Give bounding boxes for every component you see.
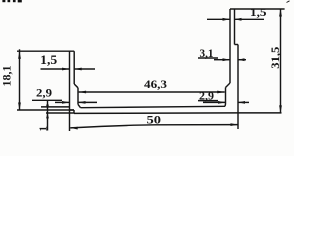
arrow 46,3 right (right-pointing) — [217, 91, 225, 94]
dimension 3,1: text underline — [198, 57, 218, 59]
svg-text:3,1: 3,1 — [200, 46, 214, 60]
arrow 1,5 top - right (left-pointing) — [235, 18, 242, 21]
dimension 3,1: right arrow line — [238, 59, 246, 61]
dimension 1,5 top: right arrow line + text underline — [235, 18, 265, 20]
profile left wall inner jog — [74, 84, 78, 88]
profile right wall outer face upper — [234, 9, 236, 45]
svg-text:31,5: 31,5 — [268, 47, 282, 69]
dimension 50 extension left — [69, 110, 71, 131]
profile right wall outer step jog — [235, 44, 239, 46]
arrow 3,1 right (left-pointing) — [238, 58, 245, 61]
profile right wall inner jog — [226, 83, 231, 88]
arrow 50 right (right-pointing) — [231, 123, 239, 126]
dimension 1,5 left: left arrow line — [41, 68, 70, 70]
profile right wall inner face upper — [229, 9, 231, 83]
arrowheads — [18, 9, 282, 130]
dimension line 46,3 — [79, 91, 225, 93]
base bottom extension to 31,5 dimension — [238, 112, 282, 114]
profile inner floor — [81, 106, 226, 107]
arrow 1,5 left - right (left-pointing) — [74, 68, 82, 71]
arrow 50 left (left-pointing) — [70, 127, 78, 130]
svg-text:46,3: 46,3 — [144, 77, 167, 91]
arrow 18,1 top (up) — [18, 51, 21, 59]
profile right wall inner face lower — [224, 88, 227, 107]
arrow 2,9 right - right (left-pointing) — [238, 101, 245, 104]
svg-text:1,5: 1,5 — [40, 52, 58, 67]
arrow 1 upper (down-pointing) — [46, 105, 49, 110]
profile left wall inner face lower — [77, 88, 79, 105]
dimension 1: lower extension line — [46, 112, 74, 114]
profile right wall outer face lower — [237, 45, 239, 114]
dimension 2,9 left: left arrow line — [55, 101, 70, 103]
profile base bottom — [74, 112, 238, 115]
arrow 1 lower (up-pointing) — [46, 113, 49, 118]
dimension line 50 — [70, 125, 238, 128]
svg-text:2,9: 2,9 — [199, 89, 214, 103]
profile left wall outer face — [69, 51, 71, 110]
dimension 2,9 left: right arrow line — [78, 101, 97, 103]
dimension 2,9 right: right arrow line — [238, 101, 249, 103]
foot extension line to 18,1 dimension — [17, 109, 74, 111]
profile left foot step — [73, 110, 75, 113]
dimension line 31,5 vertical — [280, 9, 282, 113]
arrow 2,9 right - left (right-pointing) — [218, 101, 226, 104]
dimension 1: vertical line — [47, 101, 49, 131]
arrow 1,5 top - left (right-pointing) — [223, 18, 231, 21]
profile left floor fillet — [78, 104, 81, 107]
arrow 31,5 top (up) — [279, 9, 282, 17]
dimension 50 extension right — [237, 113, 239, 129]
dimension 1,5 top: left arrow line — [207, 18, 230, 20]
svg-text:1: 1 — [38, 126, 50, 132]
profile left foot bottom — [70, 109, 75, 111]
profile left wall top cap + 18,1 top extension line — [17, 50, 74, 52]
svg-text:18,1: 18,1 — [0, 66, 14, 87]
dimension 2,9 left: text underline — [32, 99, 62, 101]
dimension 3,1: left arrow line — [214, 59, 230, 61]
arrow 2,9 left - left (right-pointing) — [62, 101, 70, 104]
dimension 1: upper extension line — [41, 106, 70, 108]
arrow 3,1 left (right-pointing) — [223, 58, 231, 61]
dimension 1,5 left: right arrow line — [74, 68, 95, 70]
profile left wall inner face upper — [73, 51, 75, 84]
top-right tiny artifact mark — [287, 1, 290, 3]
top-left cropped text marks — [2, 0, 21, 2]
arrow 18,1 bottom (down) — [18, 103, 21, 111]
svg-text:1,5: 1,5 — [250, 5, 267, 19]
dimension 2,9 right: text underline — [198, 100, 218, 102]
svg-text:50: 50 — [147, 113, 162, 127]
dimension line 18,1 vertical — [19, 49, 21, 110]
profile right wall top cap + 31,5 top extension line — [230, 8, 285, 10]
svg-text:2,9: 2,9 — [36, 86, 52, 100]
arrow 1,5 left - left (right-pointing) — [62, 68, 70, 71]
arrow 2,9 left - right (left-pointing) — [78, 101, 86, 104]
arrow 46,3 left (left-pointing) — [79, 91, 87, 94]
arrow 31,5 bottom (down) — [279, 105, 282, 113]
dimension 2,9 right: left arrow line — [203, 101, 226, 103]
